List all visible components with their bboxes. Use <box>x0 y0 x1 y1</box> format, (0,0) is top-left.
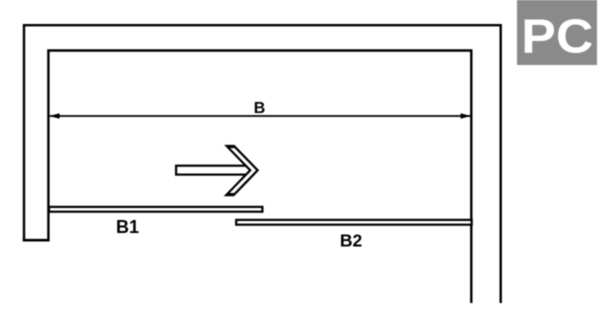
svg-text:B2: B2 <box>340 231 363 251</box>
svg-text:PC: PC <box>521 10 593 64</box>
svg-text:B1: B1 <box>116 217 139 237</box>
svg-text:B: B <box>254 100 266 117</box>
